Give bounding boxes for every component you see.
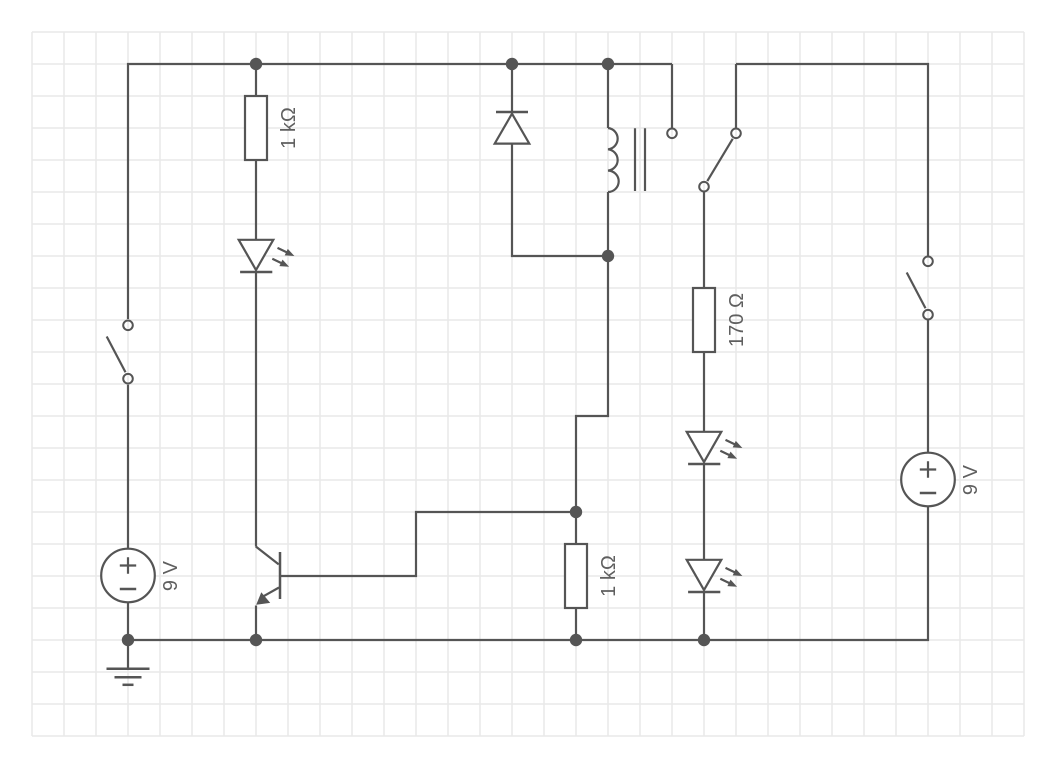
LED D2	[239, 240, 295, 272]
svg-text:1 kΩ: 1 kΩ	[598, 555, 620, 597]
wire: relay throw B stub	[735, 64, 737, 128]
LED D4	[687, 560, 743, 592]
wire: switch SW2 to battery V2	[927, 320, 929, 453]
wire: switch SW1 to battery V1	[127, 385, 129, 549]
wire: top rail to resistor R1	[255, 64, 257, 96]
wire: L1 bottom to node K	[607, 192, 609, 256]
wire: Q1 emitter to ground rail	[255, 606, 257, 641]
relay core bars	[635, 128, 645, 191]
svg-text:170 Ω: 170 Ω	[726, 293, 748, 347]
svg-text:9 V: 9 V	[960, 464, 982, 495]
wire: top rail right segment to right branch	[736, 64, 928, 256]
wire: V1 bottom, ground rail, V2 bottom	[128, 506, 928, 640]
svg-text:1 kΩ: 1 kΩ	[278, 107, 300, 149]
resistor R3 value 1 kΩ	[565, 544, 620, 608]
wire: Q1 base to node B	[280, 512, 576, 576]
switch SW2	[907, 257, 933, 320]
wire: relay throw A stub	[671, 64, 673, 128]
relay switch contacts SW3	[667, 129, 741, 192]
voltage source V2 battery 9 V	[901, 453, 982, 507]
junction dots	[250, 58, 262, 70]
ground	[107, 640, 150, 685]
wire: D2 cathode to Q1 collector	[255, 272, 257, 547]
resistor R1 value 1 kΩ	[245, 96, 300, 160]
transistor Q1 NPN mirrored	[256, 547, 280, 605]
resistor R2 value 170 Ω	[693, 288, 748, 352]
voltage source V1 battery 9 V	[101, 549, 182, 603]
wire: relay common to resistor R2	[703, 192, 705, 288]
LED D3	[687, 432, 743, 464]
wire: R3 bottom to ground rail	[575, 608, 577, 640]
wire: top rail to relay coil L1	[607, 64, 609, 128]
wire: R2 to LED D3	[703, 352, 705, 432]
svg-text:9 V: 9 V	[160, 560, 182, 591]
wire: node K down to node B	[576, 256, 608, 544]
diode D1 flyback	[495, 112, 530, 144]
wire: D1 anode to node K	[512, 144, 608, 256]
wire: R1 to LED D2	[255, 160, 257, 240]
switch SW1	[107, 321, 133, 384]
wire: D4 cathode to ground rail	[703, 593, 705, 641]
inductor L1 relay coil	[608, 128, 619, 192]
wire: top rail to diode D1 cathode	[511, 64, 513, 112]
wire: D3 cathode to LED D4	[703, 465, 705, 560]
wire: left branch up and positive top rail	[128, 64, 672, 319]
